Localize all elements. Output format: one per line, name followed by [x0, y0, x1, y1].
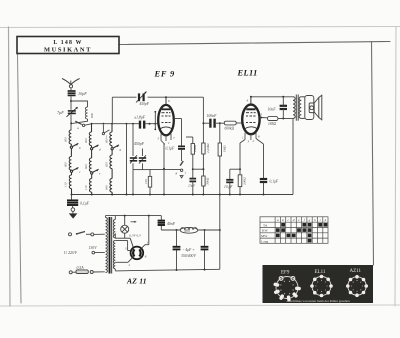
- EL11 bottom pin stubs: [245, 133, 256, 141]
- capacitor 7pF: [67, 107, 78, 117]
- svg-text:600: 600: [64, 162, 68, 167]
- main ground bus: [72, 194, 294, 196]
- dial lamp: [115, 216, 133, 248]
- svg-text:100nF: 100nF: [207, 114, 218, 118]
- svg-text:1MΩ: 1MΩ: [222, 145, 226, 153]
- resistor 30k: [202, 176, 205, 186]
- svg-text:600: 600: [64, 137, 68, 142]
- filter choke 800: [180, 227, 198, 233]
- svg-text:EL11: EL11: [237, 69, 258, 78]
- switch a (antenna): [70, 115, 91, 131]
- ground: [69, 213, 78, 218]
- svg-text:Anschlüsse von unten beim der: Anschlüsse von unten beim der Röhre gese…: [286, 299, 350, 303]
- svg-text:185Ω: 185Ω: [268, 122, 276, 126]
- svg-text:600: 600: [84, 138, 88, 143]
- capacitor 10uF (cathode): [226, 180, 233, 183]
- svg-text:110: 110: [84, 185, 88, 190]
- electrolytic 4uF (right): [204, 230, 206, 270]
- svg-text:h: h: [314, 218, 316, 222]
- wire primary bottom to bus: [292, 118, 294, 194]
- capacitor 1,8pF (series to grid): [140, 121, 144, 129]
- resistor 110 (osc padder): [143, 170, 152, 195]
- capacitor 40nF: [160, 216, 162, 230]
- svg-text:6: 6: [168, 99, 170, 103]
- rectifier AZ11: [131, 247, 144, 260]
- resistor 200 (cathode): [238, 175, 242, 187]
- svg-text:EF9: EF9: [281, 271, 290, 276]
- bottom return wire: [115, 269, 220, 271]
- band switch table: [260, 217, 328, 244]
- svg-text:25μF: 25μF: [188, 184, 196, 188]
- coil bank column 3: [110, 124, 119, 195]
- HV winding (lower right): [113, 241, 115, 269]
- earth terminal: [71, 206, 75, 214]
- capacitor 100nF (coupling): [210, 119, 214, 128]
- AZ11 socket: [348, 277, 366, 295]
- switch f (mid bank): [102, 123, 109, 135]
- svg-text:a: a: [77, 126, 79, 130]
- EF9 socket: [276, 277, 298, 299]
- heater winding (upper right): [113, 220, 115, 238]
- EL11 socket: [312, 277, 331, 296]
- electrolytic 4uF (left): [176, 230, 178, 270]
- wire: [70, 96, 72, 110]
- svg-text:7pF: 7pF: [57, 110, 64, 115]
- grid-leak vertical x=220: [219, 123, 221, 194]
- screen bypass 0,1uF: [256, 139, 264, 195]
- svg-text:g: g: [309, 218, 311, 222]
- coil value labels: [64, 137, 109, 190]
- svg-text:600: 600: [105, 138, 109, 143]
- top wire y=97: [112, 96, 203, 124]
- svg-text:AZ11: AZ11: [350, 269, 362, 274]
- AZ11 pin wires: [115, 216, 149, 263]
- svg-text:AZ 11: AZ 11: [126, 276, 147, 285]
- svg-text:640: 640: [105, 185, 109, 190]
- svg-text:- 4μF +: - 4μF +: [183, 248, 195, 252]
- resistor 1M: [218, 143, 221, 156]
- loudspeaker: [305, 95, 322, 121]
- capacitor 10nF (tone): [280, 106, 287, 109]
- svg-text:350/400V: 350/400V: [181, 254, 196, 258]
- svg-text:200Ω: 200Ω: [243, 177, 247, 185]
- mains switch: [69, 232, 105, 236]
- lamp arrow: [131, 221, 137, 223]
- transformer core: [110, 217, 112, 274]
- svg-text:450pF: 450pF: [140, 102, 150, 106]
- svg-text:110: 110: [64, 182, 68, 187]
- output transformer: [293, 95, 305, 121]
- switch (pickup): [180, 150, 183, 178]
- grid top wire (AVC line): [91, 123, 139, 125]
- svg-text:a: a: [277, 218, 279, 222]
- tube pinout panel (black): [263, 265, 374, 303]
- svg-text:40nF: 40nF: [167, 222, 176, 226]
- svg-text:130V: 130V: [89, 246, 98, 250]
- svg-text:2MΩ: 2MΩ: [193, 144, 197, 152]
- svg-text:d: d: [293, 218, 295, 222]
- B+ line through choke: [161, 229, 221, 231]
- trimmer line column 5: [133, 124, 143, 195]
- fuse 0,5A: [69, 270, 105, 274]
- EF9 cathode line: [150, 144, 180, 195]
- coil bank column 2: [89, 124, 98, 195]
- svg-text:600: 600: [84, 164, 88, 169]
- svg-text:10nF: 10nF: [268, 107, 277, 111]
- antenna coupling coil: [71, 101, 88, 123]
- resistor 2M (AVC): [186, 137, 203, 170]
- svg-text:TA: TA: [263, 223, 268, 227]
- EL11 screen wire + resistor 185: [260, 117, 293, 121]
- svg-text:600kΩ: 600kΩ: [225, 127, 235, 131]
- tube EF9: [158, 97, 174, 135]
- svg-text:U 220V: U 220V: [64, 250, 77, 255]
- capacitor 0,1uF (anode): [178, 146, 185, 149]
- svg-text:Lang: Lang: [261, 239, 268, 243]
- svg-text:800: 800: [185, 229, 191, 233]
- svg-text:KW: KW: [262, 229, 269, 233]
- svg-text:i: i: [320, 218, 321, 222]
- svg-text:450pF: 450pF: [134, 142, 145, 146]
- chassis cap 0,1uF below bus: [71, 195, 73, 200]
- EL11 cathode chain: [230, 140, 245, 195]
- svg-text:MW: MW: [261, 234, 268, 238]
- B+ feed vertical: [219, 195, 221, 270]
- resistor 2,2M: [202, 143, 205, 154]
- title box L 148 W MUSIKANT: [17, 37, 119, 54]
- svg-text:L 148 W: L 148 W: [53, 40, 82, 46]
- power transformer primary winding: [106, 218, 108, 273]
- coil bank column 1: [69, 130, 78, 195]
- antenna: [62, 79, 80, 91]
- svg-text:30kΩ: 30kΩ: [206, 177, 210, 185]
- EL11 top wire to transformer: [250, 96, 293, 98]
- B+ top wire: [106, 215, 162, 220]
- svg-text:EL11: EL11: [315, 270, 326, 275]
- svg-text:600: 600: [90, 113, 94, 118]
- capacitor 10pF (antenna series): [68, 91, 76, 95]
- svg-text:650: 650: [105, 162, 109, 167]
- variable capacitor 450pF (tuning): [136, 92, 147, 103]
- tube EL11: [242, 97, 259, 134]
- svg-text:b: b: [282, 218, 284, 222]
- EF9 bottom pin stubs: [161, 134, 171, 144]
- svg-text:4: 4: [247, 99, 249, 103]
- main vertical node line x=203: [202, 97, 204, 194]
- capacitor 25uF (AVC): [190, 179, 197, 182]
- svg-text:MUSIKANT: MUSIKANT: [44, 46, 92, 53]
- svg-text:10 μF: 10 μF: [224, 185, 233, 189]
- EF9 anode wire: [174, 119, 182, 146]
- oscillator line column 4: [126, 124, 128, 195]
- svg-text:10pF: 10pF: [78, 91, 87, 96]
- svg-text:110: 110: [144, 179, 148, 184]
- svg-text:EF 9: EF 9: [154, 70, 176, 79]
- trimmer capacitor 450pF (right): [139, 155, 146, 163]
- resistor 600k (EL11 grid stopper): [224, 121, 242, 125]
- trimmer capacitor 450pF (left): [130, 155, 137, 163]
